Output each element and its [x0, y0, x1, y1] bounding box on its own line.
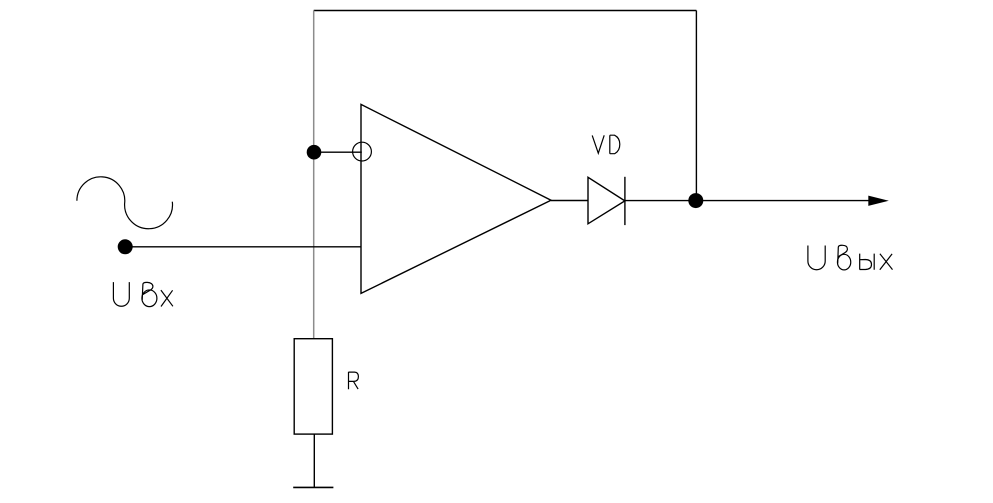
diode VD	[588, 177, 625, 224]
node junction dot inverting input	[307, 145, 322, 160]
wire node to op-amp inverting input	[314, 151, 362, 153]
wire diode to output	[625, 200, 869, 202]
wire top feedback	[314, 10, 697, 12]
AC source sine symbol	[77, 177, 173, 229]
output arrowhead	[868, 196, 889, 206]
node output junction dot	[688, 193, 703, 208]
op-amp U1 inverting input circle	[353, 142, 372, 161]
wire op-amp output to diode	[551, 200, 588, 202]
label U vyx	[808, 245, 893, 270]
resistor R	[294, 339, 332, 434]
wire left feedback vertical	[313, 11, 315, 339]
ground	[293, 486, 333, 488]
wire right feedback vertical	[695, 11, 697, 201]
node input terminal dot	[118, 239, 133, 254]
op-amp U1	[361, 104, 551, 293]
diode VD cathode bar	[624, 177, 626, 225]
wire input to op-amp	[125, 246, 361, 248]
wire resistor to ground	[313, 434, 315, 487]
label R	[349, 372, 359, 389]
label U vx	[113, 282, 172, 307]
label VD	[592, 135, 620, 154]
